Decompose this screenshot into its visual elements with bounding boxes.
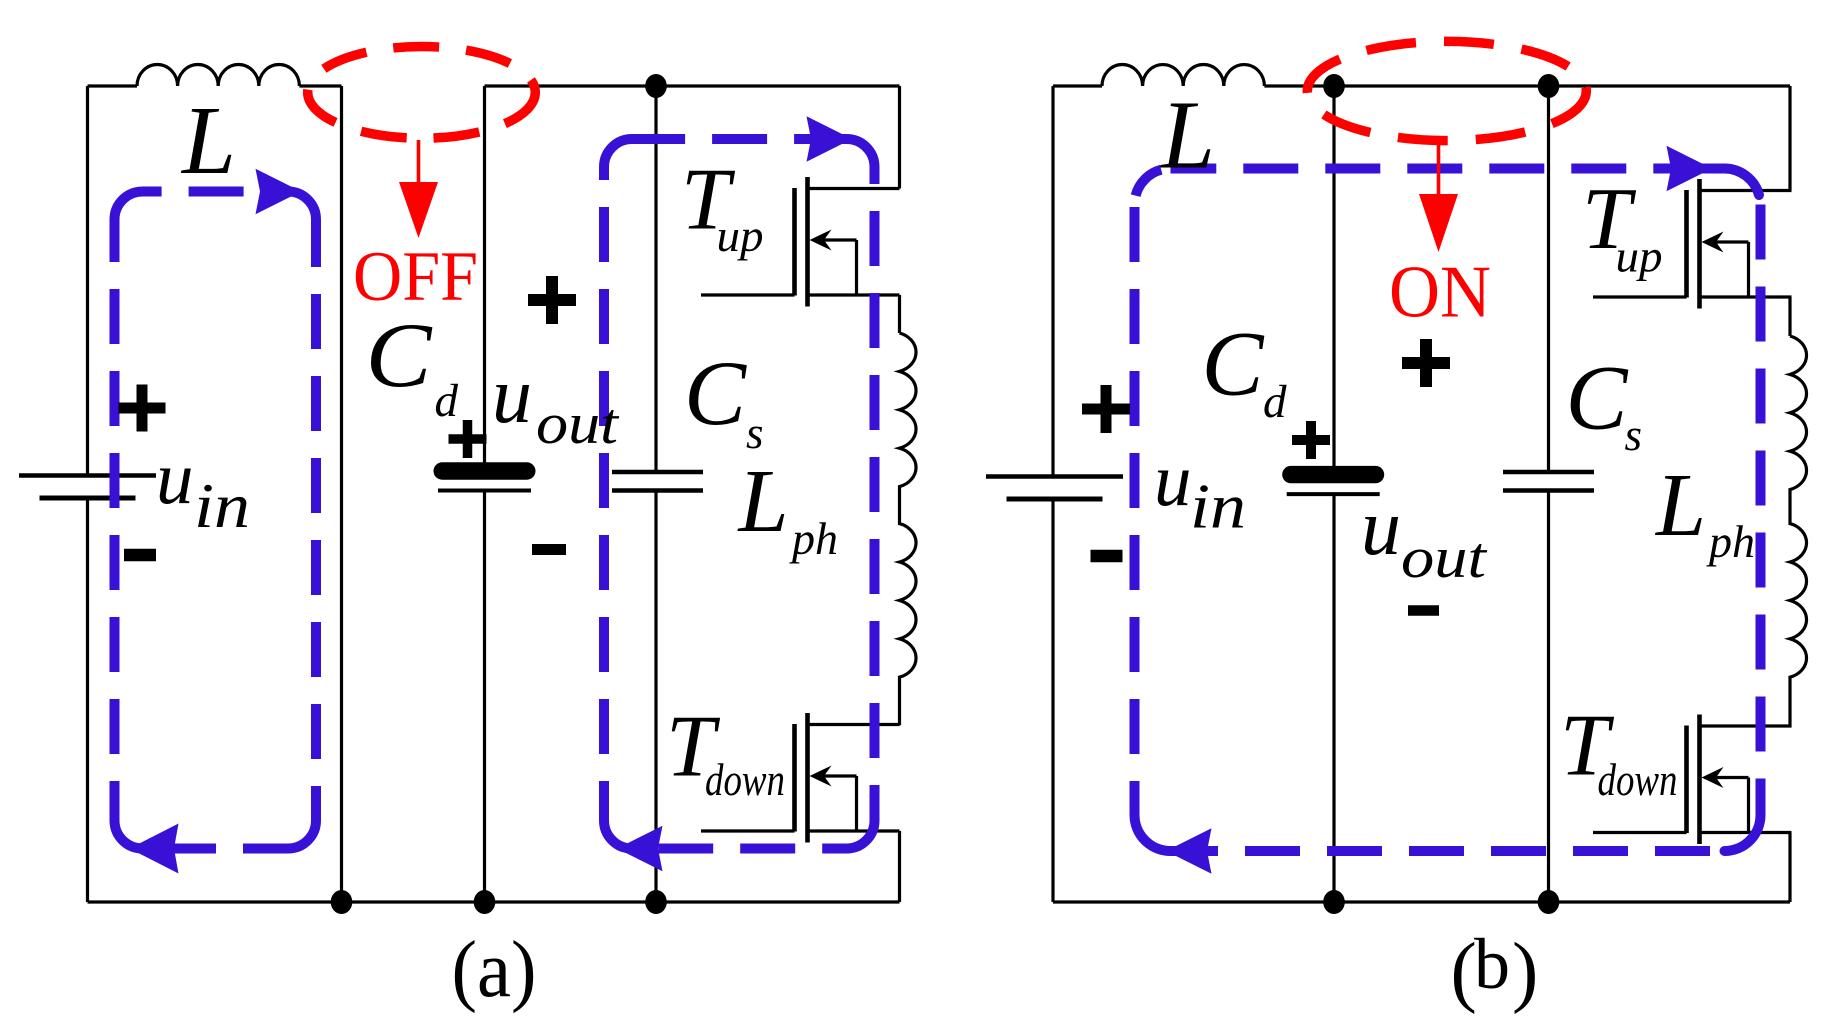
svg-text:L: L <box>1654 456 1706 555</box>
svg-text:down: down <box>705 755 785 805</box>
svg-text:C: C <box>1202 313 1266 415</box>
svg-text:u: u <box>156 437 194 520</box>
svg-text:b: b <box>1474 924 1510 1004</box>
svg-text:L: L <box>1159 82 1215 189</box>
svg-text:s: s <box>1625 410 1643 460</box>
svg-text:s: s <box>746 408 764 458</box>
svg-text:u: u <box>492 352 532 440</box>
svg-text:ph: ph <box>1706 516 1755 567</box>
svg-text:in: in <box>194 470 250 541</box>
svg-text:down: down <box>1598 755 1678 805</box>
svg-text:out: out <box>536 391 620 456</box>
svg-text:L: L <box>737 452 789 551</box>
svg-text:out: out <box>1401 525 1488 590</box>
svg-text:C: C <box>1566 347 1630 449</box>
svg-text:up: up <box>717 211 764 261</box>
svg-text:u: u <box>1361 484 1401 572</box>
svg-text:C: C <box>366 304 434 406</box>
svg-text:in: in <box>1190 471 1246 542</box>
svg-text:ph: ph <box>789 513 838 564</box>
svg-text:up: up <box>1616 232 1663 282</box>
svg-text:ON: ON <box>1389 252 1491 334</box>
svg-text:d: d <box>435 375 459 427</box>
svg-text:(: ( <box>1451 928 1477 1015</box>
svg-text:d: d <box>1263 376 1287 428</box>
svg-text:): ) <box>1512 928 1538 1015</box>
svg-text:L: L <box>180 87 236 194</box>
svg-text:(a): (a) <box>452 926 537 1014</box>
svg-text:u: u <box>1154 439 1192 522</box>
svg-text:C: C <box>684 342 748 444</box>
